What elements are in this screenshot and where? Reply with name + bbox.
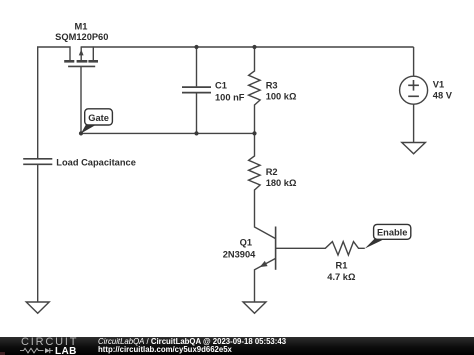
- voltage source V1: [400, 76, 428, 104]
- ground load capacitance: [26, 302, 49, 313]
- svg-text:M1: M1: [75, 22, 88, 32]
- svg-text:48 V: 48 V: [433, 90, 453, 100]
- svg-text:Q1: Q1: [240, 238, 252, 248]
- svg-text:SQM120P60: SQM120P60: [55, 32, 108, 42]
- svg-text:R2: R2: [266, 167, 278, 177]
- node Gate label flag: [81, 109, 112, 134]
- svg-text:4.7 kΩ: 4.7 kΩ: [327, 272, 356, 282]
- wire M1 gate lead and gate bus: [81, 66, 255, 133]
- svg-text:Enable: Enable: [377, 228, 407, 238]
- node Enable label flag: [365, 224, 411, 248]
- svg-text:2N3904: 2N3904: [223, 250, 256, 260]
- svg-text:100 nF: 100 nF: [215, 92, 245, 102]
- svg-text:100 kΩ: 100 kΩ: [266, 92, 297, 102]
- resistor R3: [249, 47, 261, 133]
- svg-text:C1: C1: [215, 80, 227, 90]
- resistor R2: [249, 133, 276, 238]
- node Gate junction dot: [79, 131, 83, 135]
- svg-text:Load Capacitance: Load Capacitance: [56, 158, 136, 168]
- wire V1 bottom lead: [413, 104, 415, 142]
- capacitor C1: [182, 47, 211, 133]
- ground Q1: [243, 302, 266, 313]
- svg-text:180 kΩ: 180 kΩ: [266, 178, 297, 188]
- wire top rail right: [81, 46, 413, 48]
- junction R3 top: [252, 45, 256, 49]
- wire V1 top lead: [413, 47, 415, 76]
- transistor M1 PMOS body: [64, 46, 98, 66]
- footer corner mark: [0, 352, 5, 355]
- svg-text:R1: R1: [336, 261, 348, 271]
- junction C1 bottom: [194, 131, 198, 135]
- transistor Q1 NPN: [255, 227, 276, 303]
- footer attribution text: [98, 338, 286, 355]
- wire top rail left and left rail: [38, 47, 70, 159]
- svg-text:V1: V1: [433, 80, 444, 90]
- footer bar: [0, 337, 474, 355]
- junction C1 top: [194, 45, 198, 49]
- svg-text:R3: R3: [266, 81, 278, 91]
- CircuitLab logo: [19, 337, 81, 355]
- wire M1 right terminal drop: [92, 46, 94, 60]
- ground V1: [402, 143, 426, 154]
- wire Q1 base, resistor R1, wire to Enable node: [276, 242, 365, 255]
- junction R3 bottom: [252, 131, 256, 135]
- capacitor Load Capacitance: [23, 159, 52, 302]
- svg-text:Gate: Gate: [88, 113, 109, 123]
